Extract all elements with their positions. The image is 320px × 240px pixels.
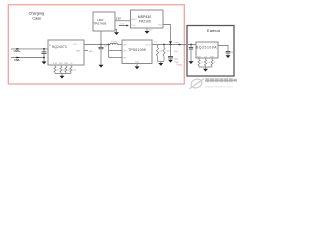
boost U4 TPS61099 — [122, 40, 152, 64]
wire feedback rail — [158, 60, 165, 62]
resistor R5 feedback — [157, 45, 159, 48]
wire 2.5V net — [115, 20, 131, 22]
node arrow onto 5V rail — [169, 41, 172, 44]
svg-text:www.elecfans.com: www.elecfans.com — [206, 85, 234, 89]
svg-text:Pogo: Pogo — [176, 63, 183, 67]
resistor R6 feedback — [163, 45, 165, 48]
svg-text:1.1k: 1.1k — [57, 69, 61, 71]
charger U5 BQ25100A — [196, 42, 218, 58]
ground MSP — [145, 31, 150, 34]
resistor R1 — [54, 65, 56, 66]
svg-text:220k: 220k — [166, 50, 170, 52]
capacitor C1 on USB input — [43, 49, 45, 52]
svg-text:VOUT: VOUT — [146, 45, 152, 47]
junction node at LDO tap — [100, 44, 102, 46]
wire LDO feed — [100, 31, 102, 45]
capacitor C5 battery — [226, 51, 231, 53]
wire USB- — [11, 57, 44, 59]
svg-text:4.7µH: 4.7µH — [111, 41, 117, 43]
resistor R7 — [198, 58, 200, 60]
svg-text:2k: 2k — [214, 62, 216, 64]
svg-text:Pogo: Pogo — [174, 42, 178, 44]
svg-text:P2.0: P2.0 — [158, 24, 162, 26]
svg-text:BAT+: BAT+ — [89, 50, 95, 53]
wire 5V output net — [152, 44, 196, 46]
ground under U1 — [60, 76, 65, 79]
ground C5 — [226, 55, 231, 58]
junction node at boost tap — [108, 44, 110, 46]
svg-text:SW: SW — [123, 45, 126, 47]
wire VIN/EN feed to boost — [108, 45, 110, 58]
capacitor C3 output — [170, 45, 172, 57]
ground below C2 — [99, 65, 104, 68]
junction on USB+ — [43, 48, 45, 50]
resistor R4 — [70, 65, 72, 66]
svg-text:ILIM: ILIM — [53, 63, 57, 65]
svg-text:1M: 1M — [159, 50, 162, 52]
inductor L1 — [110, 43, 118, 44]
wire battery output — [218, 46, 228, 52]
wire MSP enable elbow — [163, 25, 171, 42]
node USB+ arrow — [16, 48, 19, 50]
svg-text:USB+: USB+ — [14, 49, 21, 53]
wire BAT stub — [84, 50, 88, 52]
svg-text:USB-: USB- — [14, 58, 20, 62]
earbud enclosure — [187, 26, 234, 77]
svg-text:Charging: Charging — [29, 12, 44, 16]
svg-text:10k: 10k — [207, 62, 210, 64]
battery charger U1 BQ24073 — [48, 40, 84, 65]
wire rail under U1 — [55, 73, 71, 75]
svg-text:TPS61099: TPS61099 — [128, 48, 146, 52]
watermark logo — [190, 78, 237, 90]
ground under U5 — [203, 69, 208, 72]
svg-text:Case: Case — [32, 17, 41, 21]
wire MSP ground stem — [146, 28, 148, 31]
wire OUT rail — [84, 44, 110, 46]
wire LDO gnd — [115, 29, 117, 32]
ground feedback — [158, 63, 163, 66]
svg-text:sense: sense — [119, 24, 124, 26]
svg-text:DVCC: DVCC — [131, 19, 137, 21]
svg-text:1k: 1k — [201, 62, 203, 64]
LDO U2 TPS7A05 — [93, 12, 115, 31]
charging case boundary (red box) — [8, 5, 184, 84]
svg-text:BAT: BAT — [231, 51, 236, 54]
svg-text:Earbud: Earbud — [207, 28, 220, 33]
svg-text:BQ24073: BQ24073 — [52, 45, 67, 49]
svg-text:P1.1: P1.1 — [131, 25, 135, 27]
MCU U3 MSP430 FR2100 — [131, 10, 164, 28]
wire USB+ — [11, 48, 48, 50]
resistor R2 — [60, 65, 62, 66]
svg-text:TPS7A05: TPS7A05 — [93, 22, 106, 26]
svg-text:GND: GND — [174, 58, 179, 60]
svg-text:BQ25100A: BQ25100A — [196, 46, 217, 50]
resistor R3 — [65, 65, 67, 66]
svg-text:GND: GND — [148, 30, 153, 32]
ground TPS — [135, 66, 140, 69]
wire rail under U5 — [199, 66, 212, 68]
junction on USB- — [43, 57, 45, 59]
resistor R9 — [211, 58, 213, 60]
pogo pin contact — [178, 44, 181, 46]
sense arrow into MCU — [119, 25, 127, 27]
capacitor C4 earbud input — [190, 45, 192, 48]
junction dots on 5V net — [163, 44, 165, 46]
svg-text:10k: 10k — [73, 69, 76, 71]
ground C4 — [189, 61, 194, 64]
ground below C1 — [42, 61, 47, 64]
resistor R8 — [205, 58, 207, 60]
svg-text:TMR: TMR — [64, 63, 69, 65]
wire TPS ground stem — [136, 64, 138, 67]
svg-text:2.5V: 2.5V — [116, 18, 121, 21]
node USB- arrow — [16, 57, 19, 59]
svg-text:GND: GND — [135, 62, 140, 64]
svg-text:FR2100: FR2100 — [139, 19, 151, 23]
ground LDO — [114, 32, 119, 35]
capacitor C2 bypass — [100, 45, 102, 48]
